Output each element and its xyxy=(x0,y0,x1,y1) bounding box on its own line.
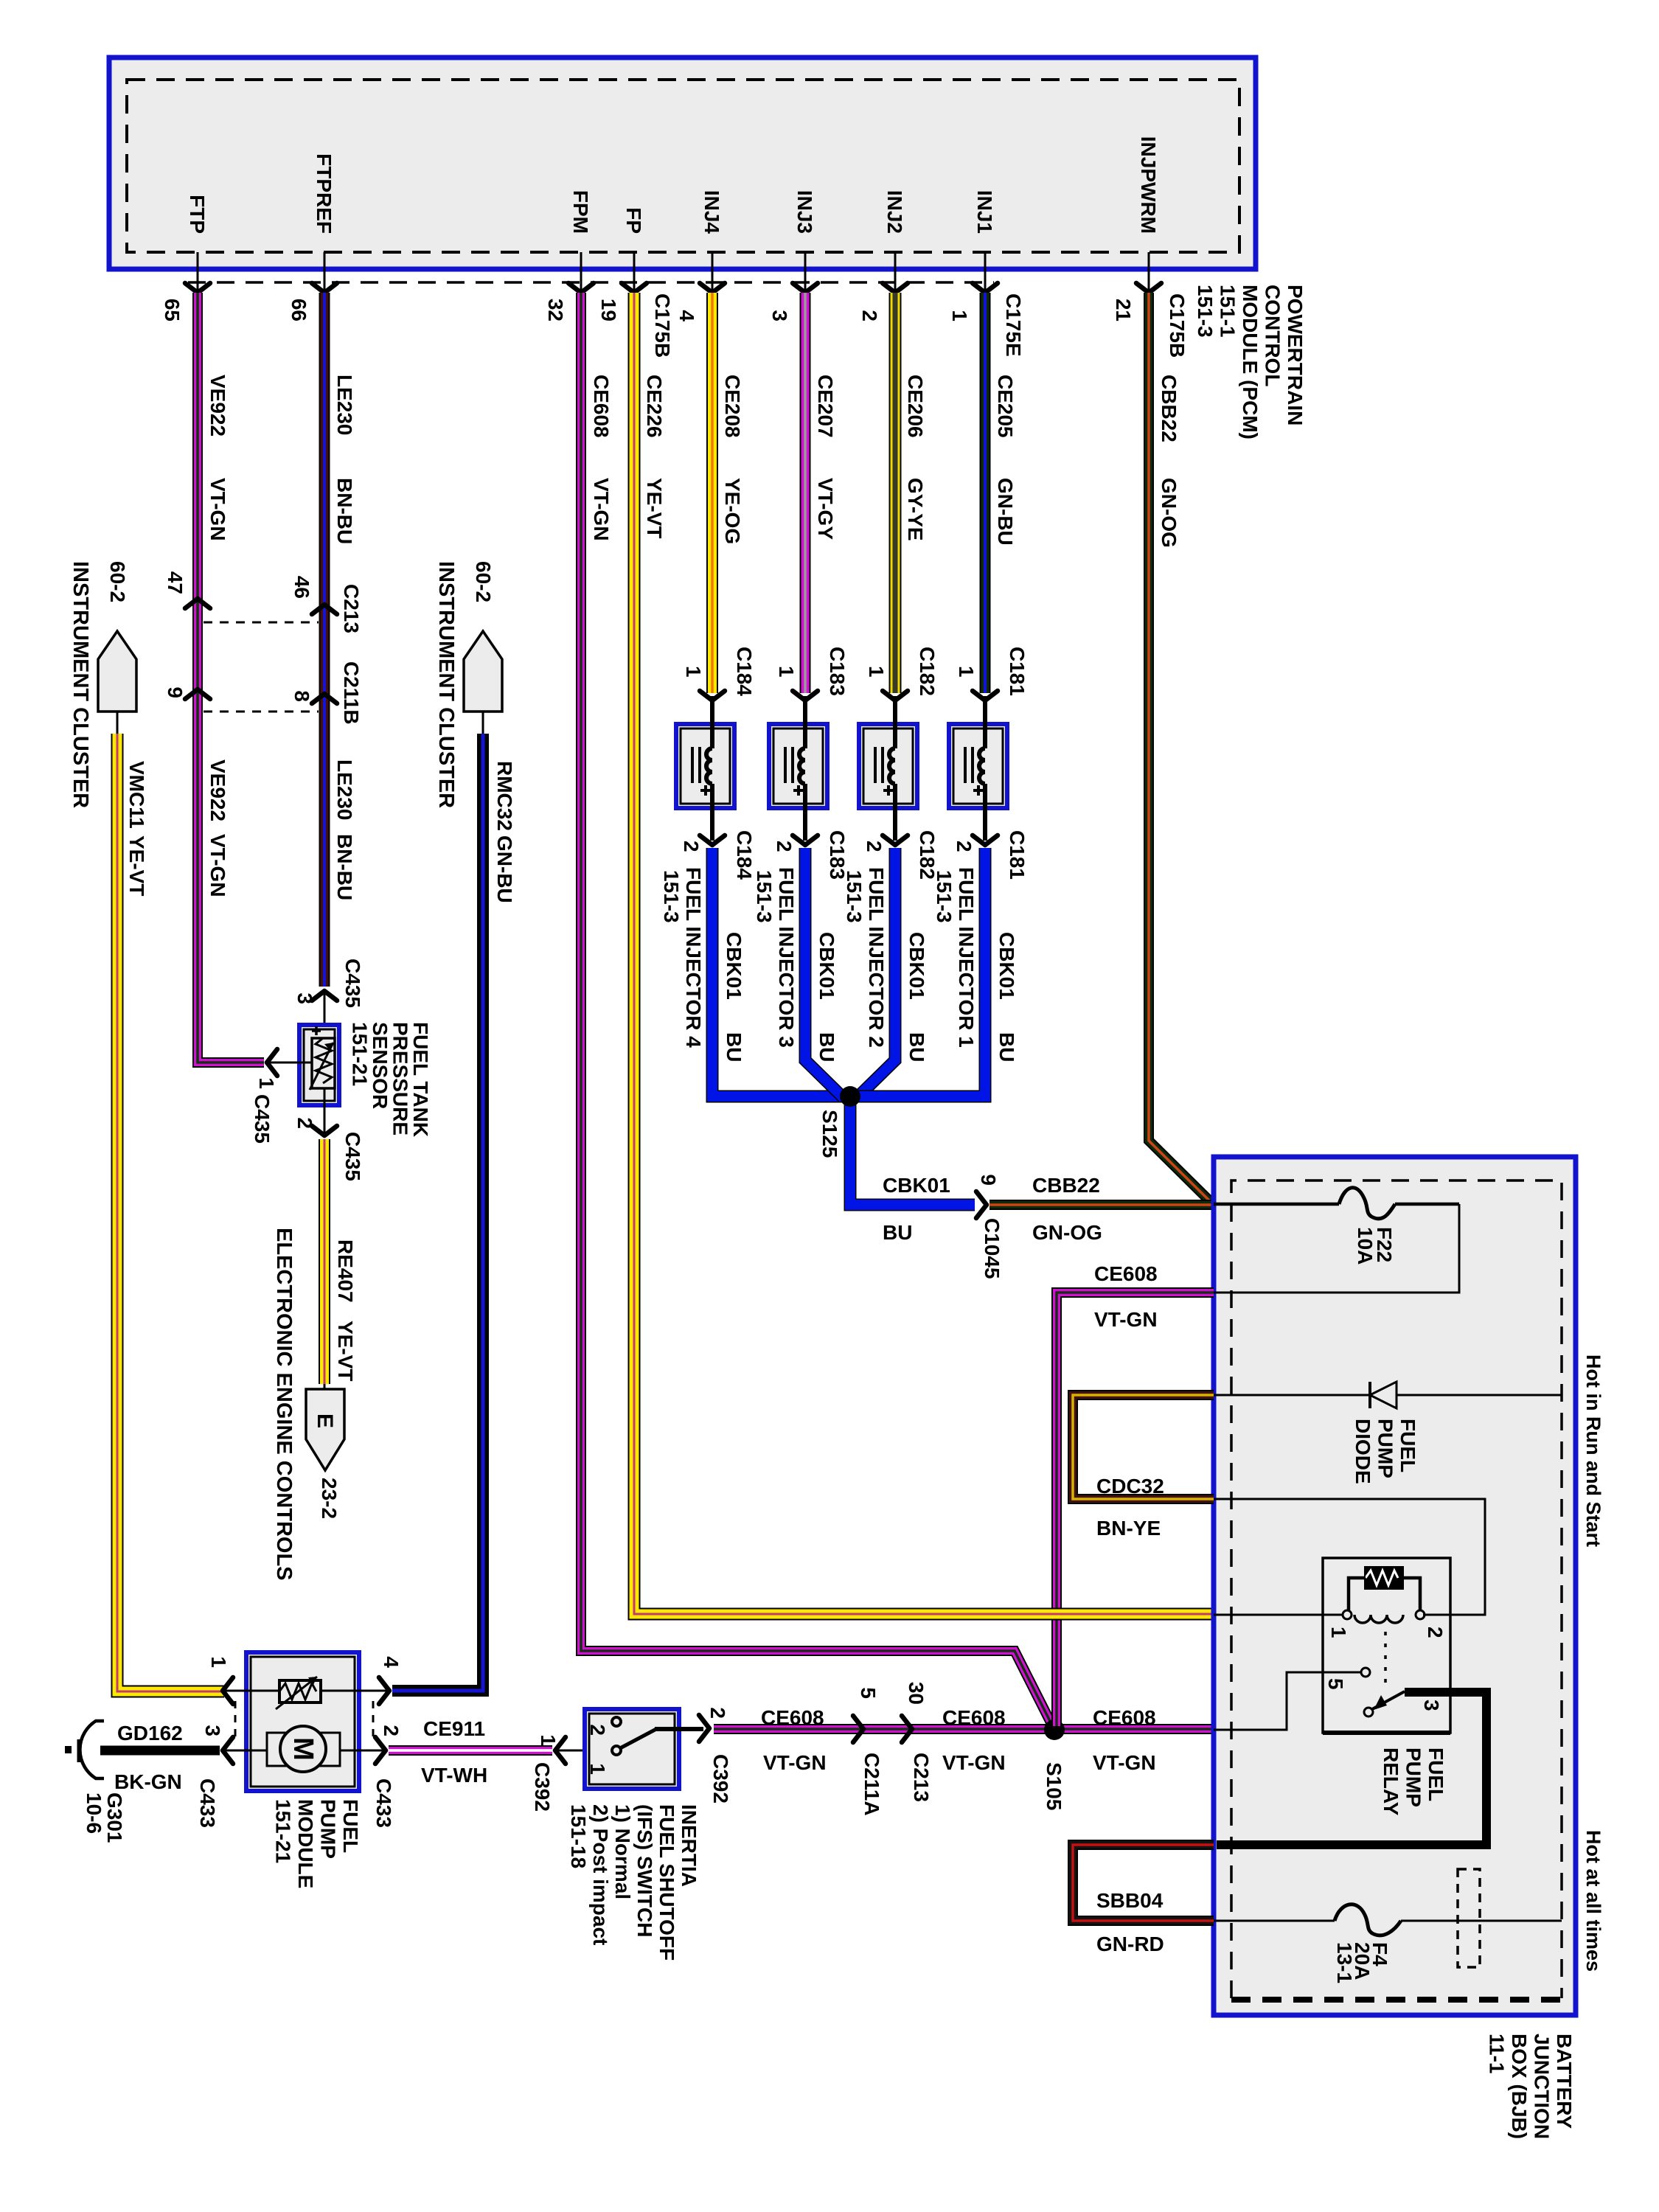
svg-text:C184: C184 xyxy=(733,647,756,696)
svg-text:PUMP: PUMP xyxy=(1402,1747,1425,1807)
motor leads xyxy=(226,1750,267,1752)
svg-text:151-18: 151-18 xyxy=(567,1804,590,1868)
relay contact pin 5 xyxy=(1361,1668,1370,1677)
fuse F22 circuit xyxy=(1214,1203,1339,1206)
svg-text:19: 19 xyxy=(597,299,620,321)
svg-text:1: 1 xyxy=(955,666,978,678)
wire RMC32 GN-BU from instrument cluster xyxy=(392,734,483,1691)
svg-text:FUEL INJECTOR 3: FUEL INJECTOR 3 xyxy=(775,867,798,1048)
svg-text:151-21: 151-21 xyxy=(272,1799,295,1863)
svg-text:11-1: 11-1 xyxy=(1486,2034,1509,2074)
svg-text:S105: S105 xyxy=(1043,1762,1065,1810)
svg-text:INSTRUMENT CLUSTER: INSTRUMENT CLUSTER xyxy=(69,561,92,808)
svg-text:C213: C213 xyxy=(910,1753,933,1802)
svg-text:INERTIA: INERTIA xyxy=(678,1804,700,1887)
wire CE208 YE-OG from INJ4 xyxy=(706,293,718,693)
sensor symbol xyxy=(312,1038,335,1088)
svg-text:3: 3 xyxy=(768,310,791,321)
wire LE230 BN-BU from FTPREF pin 66 xyxy=(319,293,330,987)
fuel injector 4 pin 2 arrow xyxy=(700,835,725,845)
svg-text:GN-OG: GN-OG xyxy=(1158,478,1180,548)
PCM powertrain control module box xyxy=(109,58,1256,269)
svg-text:GY-YE: GY-YE xyxy=(904,478,927,541)
svg-text:1: 1 xyxy=(775,666,798,678)
relay pin 3 output wire xyxy=(1217,1692,1486,1845)
svg-text:46: 46 xyxy=(291,576,313,599)
svg-text:LE230: LE230 xyxy=(333,375,356,436)
svg-text:1: 1 xyxy=(1327,1627,1350,1638)
svg-text:151-3: 151-3 xyxy=(1194,285,1217,338)
wire CDC32 BN-YE loop xyxy=(1073,1395,1214,1499)
relay coil xyxy=(1343,1610,1352,1619)
PCM pin FP stub and arrow xyxy=(633,252,636,290)
svg-text:C175B: C175B xyxy=(1166,293,1189,358)
PCM inner dashed border xyxy=(127,80,1239,252)
relay contact arm xyxy=(1364,1708,1373,1717)
PCM pin INJ3 stub and arrow xyxy=(804,252,807,290)
IFS pin 1 arrow xyxy=(555,1737,566,1764)
svg-text:BU: BU xyxy=(815,1032,838,1062)
wire CE205 GN-BU from INJ1 xyxy=(980,293,991,693)
fuel injector 1 box xyxy=(949,724,1007,808)
sensor pin 1 lead xyxy=(268,1062,312,1064)
svg-text:FUEL: FUEL xyxy=(339,1799,362,1853)
PCM pin INJPWRM stub and arrow xyxy=(1148,252,1150,290)
wire CBK01 BU injector 3 xyxy=(805,848,843,1097)
fuel injector 3 coil symbol xyxy=(803,696,807,748)
svg-text:RMC32: RMC32 xyxy=(493,761,516,831)
svg-text:1: 1 xyxy=(865,666,888,678)
svg-text:CBK01: CBK01 xyxy=(995,932,1018,1000)
fuel level sender symbol xyxy=(279,1680,321,1703)
sensor pin 2 lead xyxy=(324,1088,326,1133)
svg-text:23-2: 23-2 xyxy=(318,1478,341,1519)
wire CE226 crossing overlay xyxy=(1044,1608,1071,1621)
connector C211A arrow xyxy=(853,1716,863,1742)
sensor pin 3 arrow xyxy=(312,991,337,1001)
svg-text:CBK01: CBK01 xyxy=(815,932,838,1000)
relay resistor xyxy=(1366,1568,1402,1588)
svg-text:CE208: CE208 xyxy=(721,375,744,438)
svg-text:BN-YE: BN-YE xyxy=(1096,1517,1161,1540)
wire VMC11 YE-VT from instrument cluster xyxy=(117,734,224,1691)
IFS switch symbol xyxy=(612,1717,621,1726)
svg-text:M: M xyxy=(288,1737,319,1761)
fuel injector 2 pin 1 arrow xyxy=(883,691,908,700)
svg-text:C181: C181 xyxy=(1006,830,1029,880)
splice S125 xyxy=(850,1091,975,1205)
svg-text:60-2: 60-2 xyxy=(106,561,129,602)
svg-text:C213: C213 xyxy=(340,584,363,633)
fuel tank pressure sensor box xyxy=(299,1025,339,1105)
svg-text:2: 2 xyxy=(380,1725,403,1736)
svg-text:CE206: CE206 xyxy=(904,375,927,438)
svg-text:47: 47 xyxy=(164,571,187,594)
svg-text:INJ1: INJ1 xyxy=(973,190,996,234)
svg-text:3: 3 xyxy=(293,992,316,1004)
fuel pump module box xyxy=(246,1652,359,1791)
svg-text:10A: 10A xyxy=(1354,1227,1377,1265)
connector C1045 arrow xyxy=(976,1192,987,1218)
ground symbol G301 xyxy=(80,1721,104,1778)
svg-text:INJ4: INJ4 xyxy=(700,190,723,234)
svg-text:VT-GN: VT-GN xyxy=(1094,1308,1158,1331)
wire CE608 VT-GN from FPM pin 32 xyxy=(581,293,1054,1730)
svg-text:3: 3 xyxy=(1420,1700,1443,1711)
svg-text:MODULE: MODULE xyxy=(294,1799,317,1888)
svg-text:10-6: 10-6 xyxy=(83,1792,105,1834)
svg-text:151-1: 151-1 xyxy=(1217,285,1239,338)
svg-text:VT-WH: VT-WH xyxy=(421,1764,487,1787)
svg-text:FP: FP xyxy=(622,207,645,234)
svg-text:8: 8 xyxy=(291,690,313,702)
svg-text:FUEL INJECTOR 2: FUEL INJECTOR 2 xyxy=(865,867,888,1048)
svg-text:C175B: C175B xyxy=(651,293,674,358)
svg-text:INJ2: INJ2 xyxy=(883,190,906,234)
wire CE226 YE-VT from FP pin 19 xyxy=(634,293,1214,1614)
svg-text:1: 1 xyxy=(586,1763,609,1775)
svg-text:FUEL TANK: FUEL TANK xyxy=(409,1022,432,1137)
connector C213A arrow xyxy=(902,1716,912,1742)
svg-text:2: 2 xyxy=(586,1724,609,1736)
svg-text:S125: S125 xyxy=(818,1110,841,1158)
svg-text:2: 2 xyxy=(706,1707,729,1719)
fuel pump diode symbol xyxy=(1368,1382,1371,1408)
svg-text:C435: C435 xyxy=(341,1132,364,1181)
svg-text:BU: BU xyxy=(995,1032,1018,1062)
svg-text:5: 5 xyxy=(857,1687,880,1699)
svg-text:4: 4 xyxy=(675,310,698,321)
svg-text:30: 30 xyxy=(905,1682,928,1705)
sensor pin 3 lead xyxy=(324,992,326,1038)
BJB dashed connector xyxy=(1458,1869,1480,1967)
svg-text:YE-OG: YE-OG xyxy=(721,478,744,544)
svg-text:CE608: CE608 xyxy=(1094,1262,1158,1285)
svg-text:9: 9 xyxy=(164,686,187,698)
svg-text:CBB22: CBB22 xyxy=(1032,1174,1100,1197)
wire CBK01 BU injector 4 xyxy=(712,848,845,1096)
fuel injector 2 pin 2 arrow xyxy=(883,835,908,845)
instrument cluster arrow 1 xyxy=(98,631,136,712)
svg-text:CBK01: CBK01 xyxy=(905,932,928,1000)
wire CBB22 GN-OG horizontal to BJB xyxy=(990,1200,1215,1210)
svg-text:C392: C392 xyxy=(531,1762,554,1812)
svg-text:1: 1 xyxy=(682,666,705,678)
wire RE407 YE-VT xyxy=(319,1139,330,1384)
svg-text:BU: BU xyxy=(883,1221,912,1244)
svg-text:CE608: CE608 xyxy=(590,375,613,438)
connector C213 dashed line xyxy=(204,622,319,624)
fuse F4 circuit xyxy=(1214,1920,1335,1922)
BJB inner dashed border xyxy=(1231,1180,1562,1998)
inertia fuel shutoff switch box xyxy=(585,1709,679,1789)
svg-text:(IFS) SWITCH: (IFS) SWITCH xyxy=(633,1804,656,1937)
wire CE911 VT-WH xyxy=(389,1745,552,1756)
svg-text:1: 1 xyxy=(207,1656,230,1668)
svg-text:C433: C433 xyxy=(196,1778,219,1828)
svg-text:JUNCTION: JUNCTION xyxy=(1531,2034,1554,2139)
PCM pin INJ2 stub and arrow xyxy=(894,252,897,290)
svg-text:C211A: C211A xyxy=(860,1753,883,1816)
svg-text:5: 5 xyxy=(1324,1678,1347,1690)
svg-text:DIODE: DIODE xyxy=(1352,1419,1374,1484)
svg-text:FUEL SHUTOFF: FUEL SHUTOFF xyxy=(655,1804,678,1961)
svg-text:PUMP: PUMP xyxy=(1374,1419,1397,1478)
fuel injector 4 pin 1 arrow xyxy=(700,691,725,700)
svg-text:LE230: LE230 xyxy=(333,759,356,821)
svg-text:CE608: CE608 xyxy=(942,1706,1006,1729)
svg-text:2: 2 xyxy=(858,310,881,321)
svg-text:VT-GN: VT-GN xyxy=(1093,1751,1156,1774)
fuse F22 symbol xyxy=(1339,1188,1395,1219)
connector C213 arrows xyxy=(185,599,210,608)
fuel injector 4 box xyxy=(676,724,734,808)
svg-text:C211B: C211B xyxy=(340,661,363,725)
svg-text:VE922: VE922 xyxy=(206,759,229,821)
svg-text:BK-GN: BK-GN xyxy=(114,1770,182,1793)
fuel injector 1 pin 1 arrow xyxy=(973,691,998,700)
PCM pin INJ4 stub and arrow xyxy=(712,252,714,290)
svg-text:2) Post impact: 2) Post impact xyxy=(589,1804,612,1945)
svg-text:CE608: CE608 xyxy=(761,1706,824,1729)
svg-text:VT-GN: VT-GN xyxy=(206,834,229,897)
svg-text:1: 1 xyxy=(948,310,971,321)
svg-text:32: 32 xyxy=(544,299,567,321)
wire CBK01 BU injector 2 xyxy=(858,848,895,1097)
svg-text:E: E xyxy=(313,1413,337,1428)
fuel injector 3 pin 1 arrow xyxy=(793,691,818,700)
splice S105 xyxy=(1044,1719,1065,1740)
wire VE922 VT-GN from FTP pin 65 xyxy=(198,293,264,1062)
svg-text:13-1: 13-1 xyxy=(1333,1942,1356,1983)
svg-text:C392: C392 xyxy=(709,1754,732,1804)
wire CE207 VT-GY from INJ3 xyxy=(800,293,811,693)
svg-text:GN-RD: GN-RD xyxy=(1096,1933,1164,1955)
svg-text:Hot at all times: Hot at all times xyxy=(1582,1830,1604,1972)
svg-text:9: 9 xyxy=(977,1174,1000,1186)
svg-text:POWERTRAIN: POWERTRAIN xyxy=(1284,285,1307,425)
svg-text:PUMP: PUMP xyxy=(317,1799,340,1859)
wire SBB04 GN-RD loop xyxy=(1073,1845,1214,1921)
svg-text:CDC32: CDC32 xyxy=(1096,1475,1164,1498)
svg-text:C1045: C1045 xyxy=(981,1218,1004,1279)
svg-text:G301: G301 xyxy=(103,1792,126,1843)
svg-text:VT-GN: VT-GN xyxy=(206,478,229,541)
svg-text:C433: C433 xyxy=(372,1778,395,1828)
svg-text:SBB04: SBB04 xyxy=(1096,1889,1164,1912)
svg-text:2: 2 xyxy=(773,841,796,852)
fuel injector 1 pin 2 arrow xyxy=(973,835,998,845)
relay pin 1 feed xyxy=(1214,1614,1343,1616)
svg-text:C182: C182 xyxy=(916,647,939,696)
fuse F4 symbol xyxy=(1335,1905,1401,1935)
svg-text:21: 21 xyxy=(1112,299,1135,321)
fuel injector 4 coil symbol xyxy=(710,696,714,748)
wire CE206 GY-YE from INJ2 xyxy=(889,293,902,693)
svg-text:BU: BU xyxy=(905,1032,928,1062)
svg-text:YE-VT: YE-VT xyxy=(643,478,666,538)
connector dashed line under PCM xyxy=(188,281,994,284)
svg-text:INSTRUMENT CLUSTER: INSTRUMENT CLUSTER xyxy=(434,561,458,808)
svg-text:60-2: 60-2 xyxy=(472,561,495,602)
svg-text:CBK01: CBK01 xyxy=(883,1174,950,1197)
svg-text:GN-BU: GN-BU xyxy=(994,478,1017,546)
svg-text:INJ3: INJ3 xyxy=(793,190,816,234)
svg-text:GD162: GD162 xyxy=(117,1722,183,1745)
svg-text:BN-BU: BN-BU xyxy=(333,834,356,900)
svg-text:SENSOR: SENSOR xyxy=(369,1022,392,1109)
svg-text:FUEL: FUEL xyxy=(1397,1419,1419,1472)
wire CBB22 GN-OG from INJPWRM xyxy=(1149,293,1215,1206)
svg-text:INJPWRM: INJPWRM xyxy=(1137,136,1160,234)
svg-text:ELECTRONIC ENGINE CONTROLS: ELECTRONIC ENGINE CONTROLS xyxy=(272,1228,296,1581)
svg-text:C175E: C175E xyxy=(1002,293,1025,357)
svg-text:151-21: 151-21 xyxy=(349,1022,372,1086)
electronic engine controls arrow E xyxy=(324,1384,326,1391)
svg-text:CE608: CE608 xyxy=(1093,1706,1156,1729)
svg-text:C435: C435 xyxy=(341,959,364,1008)
connector C433 dashed lines xyxy=(234,1701,237,1740)
sensor pin 2 arrow xyxy=(312,1126,337,1135)
svg-text:CE205: CE205 xyxy=(994,375,1017,438)
svg-text:YE-VT: YE-VT xyxy=(125,835,148,896)
svg-text:FUEL: FUEL xyxy=(1425,1747,1447,1801)
svg-text:CBB22: CBB22 xyxy=(1158,375,1180,442)
svg-text:2: 2 xyxy=(953,841,975,852)
svg-text:VT-GN: VT-GN xyxy=(942,1751,1006,1774)
svg-text:CBK01: CBK01 xyxy=(723,932,745,1000)
svg-text:1: 1 xyxy=(255,1077,278,1089)
svg-text:YE-VT: YE-VT xyxy=(334,1321,357,1381)
svg-text:BN-BU: BN-BU xyxy=(333,478,356,544)
svg-text:VE922: VE922 xyxy=(206,375,229,437)
battery junction box xyxy=(1214,1157,1576,2015)
sensor pin 1 arrow xyxy=(267,1049,277,1076)
svg-text:GN-OG: GN-OG xyxy=(1032,1221,1102,1244)
svg-text:GN-BU: GN-BU xyxy=(493,835,516,903)
svg-text:FUEL INJECTOR 1: FUEL INJECTOR 1 xyxy=(955,867,978,1048)
PCM pin FTP stub and arrow xyxy=(197,252,199,290)
svg-text:FTPREF: FTPREF xyxy=(313,153,335,234)
fuel injector 2 coil symbol xyxy=(893,696,897,748)
svg-text:RELAY: RELAY xyxy=(1380,1747,1402,1816)
svg-text:CE207: CE207 xyxy=(814,375,837,438)
svg-text:3: 3 xyxy=(201,1725,224,1736)
svg-text:1) Normal: 1) Normal xyxy=(611,1804,634,1899)
svg-text:FUEL INJECTOR 4: FUEL INJECTOR 4 xyxy=(682,867,705,1048)
IFS pin1 lead xyxy=(557,1750,611,1752)
IFS pin 2 arrow xyxy=(699,1715,709,1742)
fuel pump relay box xyxy=(1323,1558,1450,1733)
diode to relay pin 2 link xyxy=(1214,1499,1485,1615)
svg-text:2: 2 xyxy=(293,1117,316,1129)
svg-text:151-3: 151-3 xyxy=(933,870,956,923)
sender leads xyxy=(226,1690,279,1692)
svg-text:C181: C181 xyxy=(1006,647,1029,696)
PCM pin INJ1 stub and arrow xyxy=(984,252,987,290)
svg-text:MODULE (PCM): MODULE (PCM) xyxy=(1239,285,1262,439)
wire CBK01 BU injector 1 xyxy=(855,848,985,1096)
svg-text:C183: C183 xyxy=(826,647,849,696)
svg-text:1: 1 xyxy=(537,1734,560,1746)
fuel pump module pin arrows xyxy=(223,1677,233,1704)
connector C211B dashed line xyxy=(204,711,319,713)
fuel injector 2 box xyxy=(859,724,917,808)
wire CE608 VT-GN relay feed xyxy=(1057,1293,1214,1726)
svg-text:VMC11: VMC11 xyxy=(125,761,148,829)
fuel injector 1 coil symbol xyxy=(983,696,987,748)
svg-text:CE911: CE911 xyxy=(423,1717,485,1740)
fuel injector 3 pin 2 arrow xyxy=(793,835,818,845)
svg-text:151-3: 151-3 xyxy=(843,870,866,923)
svg-text:151-3: 151-3 xyxy=(753,870,776,923)
svg-text:FPM: FPM xyxy=(569,190,592,234)
wire CE608 VT-GN switch to BJB xyxy=(714,1724,1214,1734)
svg-text:C435: C435 xyxy=(251,1094,274,1144)
instrument cluster arrow 2 xyxy=(464,631,502,712)
relay pin 5 feed xyxy=(1214,1672,1361,1730)
svg-text:FTP: FTP xyxy=(186,195,209,234)
svg-text:66: 66 xyxy=(288,299,310,321)
svg-text:2: 2 xyxy=(1424,1627,1447,1638)
svg-text:PRESSURE: PRESSURE xyxy=(389,1022,412,1135)
svg-text:RE407: RE407 xyxy=(334,1239,357,1303)
svg-text:2: 2 xyxy=(863,841,886,852)
svg-text:BOX (BJB): BOX (BJB) xyxy=(1508,2034,1531,2139)
fuel pump motor symbol xyxy=(267,1733,340,1766)
svg-text:Hot in Run and Start: Hot in Run and Start xyxy=(1582,1354,1604,1547)
svg-text:151-3: 151-3 xyxy=(660,870,683,923)
svg-text:4: 4 xyxy=(380,1656,403,1668)
svg-text:BU: BU xyxy=(723,1032,745,1062)
connector C211B arrows xyxy=(185,689,210,699)
svg-text:CONTROL: CONTROL xyxy=(1262,285,1284,386)
fuel injector 3 box xyxy=(769,724,827,808)
wire GD162 BK-GN xyxy=(100,1746,220,1756)
PCM pin FTPREF stub and arrow xyxy=(324,252,326,290)
PCM pin FPM stub and arrow xyxy=(580,252,582,290)
relay actuator dotted line xyxy=(1384,1632,1387,1690)
svg-text:65: 65 xyxy=(161,299,184,321)
svg-text:VT-GN: VT-GN xyxy=(763,1751,827,1774)
svg-text:VT-GY: VT-GY xyxy=(814,478,837,540)
svg-text:VT-GN: VT-GN xyxy=(590,478,613,541)
svg-text:2: 2 xyxy=(680,841,703,852)
svg-text:C184: C184 xyxy=(733,830,756,880)
fuel pump diode line xyxy=(1214,1394,1562,1397)
svg-text:BATTERY: BATTERY xyxy=(1553,2034,1576,2129)
svg-text:CE226: CE226 xyxy=(643,375,666,438)
